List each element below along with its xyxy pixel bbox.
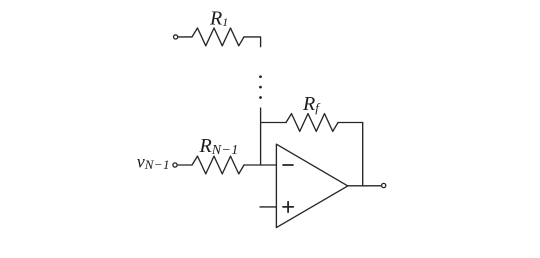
wire feedback vertical [362, 123, 364, 186]
wire vertical to inverting node [260, 108, 262, 165]
wire output [348, 185, 381, 187]
wire node to Rf [261, 122, 286, 124]
wire non-inverting input stub [260, 206, 276, 208]
svg-text:RN−1: RN−1 [199, 135, 239, 158]
wire input1 to R1 [178, 36, 192, 38]
wire RN-1 to op-amp inverting input [244, 164, 276, 166]
op-amp U1 body [276, 144, 347, 227]
wire input to RN-1 [178, 164, 192, 166]
svg-text:R1: R1 [209, 7, 228, 29]
resistor R1 [192, 28, 244, 46]
svg-text:Rf: Rf [302, 93, 321, 115]
resistor Rf [286, 114, 338, 132]
op-amp plus sign [283, 202, 293, 212]
wire Rf to feedback corner [338, 122, 363, 124]
terminal output [382, 183, 386, 187]
svg-text:vN−1: vN−1 [137, 151, 170, 172]
op-amp minus sign [283, 164, 293, 166]
wire R1 to corner [244, 37, 261, 47]
terminal input vN-1 [173, 163, 177, 167]
terminal input 1 [174, 35, 178, 39]
ellipsis dots (omitted branches) [259, 75, 262, 99]
resistor RN-1 [192, 156, 244, 174]
